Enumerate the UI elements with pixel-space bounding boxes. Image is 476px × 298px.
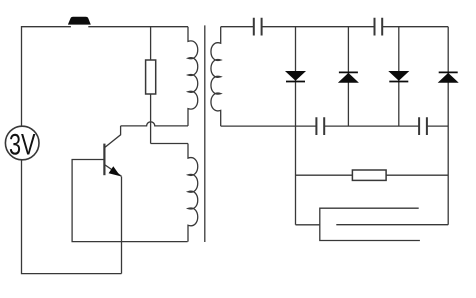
wire: multiplier top rail segment 2	[262, 26, 375, 28]
capacitor C3	[316, 117, 324, 135]
wire: left output lead to outer electrode	[296, 224, 320, 226]
wire: top rail left (battery + to switch)	[22, 27, 71, 127]
wire: resistor R1 bottom lead down to feedback winding row	[150, 94, 152, 144]
wire: resistor R1 top lead	[150, 27, 152, 60]
wire: top rail switch to resistor and primary	[88, 26, 188, 28]
wire: diode D2 branch vertical	[347, 27, 349, 126]
wire: multiplier bottom rail segment 3	[427, 125, 448, 127]
wire: base lead and base return loop	[72, 160, 188, 242]
battery B1 circle	[5, 126, 39, 160]
resistor R1	[146, 60, 156, 94]
capacitor C1	[254, 18, 262, 36]
transistor Q1 emitter arrowhead	[109, 167, 119, 175]
transformer T1 core	[204, 25, 206, 242]
capacitor C4	[419, 117, 427, 135]
transistor Q1 emitter with arrow	[104, 165, 121, 177]
diode D4 (pointing up)	[439, 72, 458, 82]
wire: battery negative to bottom rail	[22, 160, 122, 274]
wire: diode D1 branch vertical	[295, 27, 297, 225]
wire: output resistor row left	[296, 174, 353, 176]
wire: diode D4 branch vertical	[447, 27, 449, 225]
wire: emitter down lead	[121, 177, 123, 274]
wire: feedback winding top lead horizontal	[151, 143, 188, 145]
wire: collector to primary bottom with hop over resistor wire	[121, 122, 188, 126]
wire: multiplier bottom rail segment 2	[324, 125, 419, 127]
transistor Q1 collector lead	[104, 126, 120, 148]
diode D2 (pointing up)	[339, 72, 358, 82]
diode D3 (pointing down)	[389, 71, 408, 81]
wire: diode D3 branch vertical	[398, 27, 400, 126]
transformer T1 secondary winding	[211, 27, 221, 126]
output electrode middle prong	[336, 224, 448, 226]
transformer T1 feedback winding	[188, 144, 198, 242]
svg-text:3V: 3V	[9, 128, 36, 161]
pushbutton switch S1	[69, 17, 91, 24]
wire: multiplier top rail segment 1	[221, 26, 254, 28]
transformer T1 primary winding	[188, 27, 198, 126]
diode D1 (pointing down)	[286, 71, 305, 81]
transistor Q1 base bar	[103, 144, 105, 176]
wire: output resistor row right	[386, 174, 448, 176]
wire: multiplier top rail segment 3	[382, 26, 448, 28]
resistor R2	[352, 170, 386, 180]
output electrode outer (top and bottom prongs)	[320, 208, 420, 240]
wire: multiplier bottom rail segment 1	[221, 125, 317, 127]
capacitor C2	[375, 18, 383, 36]
